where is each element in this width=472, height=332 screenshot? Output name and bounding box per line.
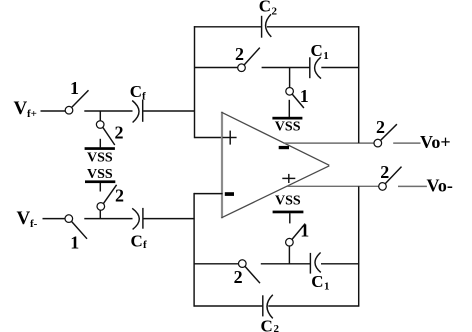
- top feedback wire right of C2: [267, 26, 359, 28]
- svg-text:C: C: [261, 316, 273, 332]
- op-amp -output mark: [279, 146, 289, 149]
- wire to VSS bar: [99, 139, 101, 148]
- capacitor Cf top: [132, 100, 143, 123]
- label Cf bottom: [131, 231, 148, 251]
- wire to VSS bar: [288, 100, 290, 117]
- svg-text:C: C: [259, 0, 271, 16]
- wire branch down to switch S4: [289, 68, 291, 88]
- svg-text:VSS: VSS: [87, 151, 113, 166]
- switch S10 bottom cm reset (phase 1): [286, 224, 306, 246]
- capacitor C1 bottom: [310, 253, 320, 274]
- wire C1 to output node: [321, 263, 359, 265]
- svg-text:V: V: [14, 98, 28, 119]
- capacitor C1 top: [310, 57, 321, 78]
- top feedback wire left of C2: [194, 26, 262, 28]
- wire Vf- to switch S7: [43, 218, 66, 220]
- capacitor C2 bottom: [263, 295, 273, 319]
- svg-text:VSS: VSS: [275, 119, 301, 134]
- wire C1 to output node: [321, 67, 359, 69]
- bottom feedback wire right of C2: [268, 305, 359, 307]
- ground VSS top-left bar: [85, 147, 115, 150]
- svg-text:1: 1: [300, 86, 309, 106]
- svg-text:V: V: [17, 208, 31, 229]
- svg-text:VSS: VSS: [275, 194, 301, 209]
- svg-text:1: 1: [70, 78, 79, 98]
- wire node X+ to op-amp +input: [195, 137, 223, 139]
- op-amp +input mark: [223, 131, 237, 145]
- svg-text:2: 2: [272, 6, 278, 18]
- node Vf+ label: [14, 98, 37, 120]
- svg-text:2: 2: [376, 117, 385, 137]
- capacitor C2 top: [262, 14, 272, 37]
- label C2 top: [259, 0, 278, 18]
- svg-text:1: 1: [300, 221, 309, 241]
- wire Vf+ to switch S1: [41, 110, 66, 112]
- svg-text:2: 2: [274, 323, 280, 332]
- svg-text:2: 2: [380, 162, 389, 182]
- wire Cf to summing node X-: [144, 218, 195, 220]
- node X- vertical wire: [193, 193, 195, 307]
- node Vo+ vertical feedback wire: [358, 26, 360, 143]
- wire switch S7 to Cf: [84, 218, 132, 220]
- op-amp +output mark: [282, 174, 295, 183]
- svg-text:2: 2: [115, 123, 124, 143]
- switch S7 bottom input (phase 1): [65, 215, 87, 239]
- svg-text:2: 2: [115, 185, 124, 205]
- svg-text:1: 1: [323, 50, 329, 62]
- svg-text:C: C: [130, 82, 142, 101]
- wire op-amp -output to switch: [284, 142, 375, 144]
- ground VSS top-middle bar: [272, 117, 302, 120]
- switch S5 output (phase 2): [374, 124, 397, 147]
- switch S4 top cm reset (phase 1): [286, 88, 304, 109]
- wire switch S1 to Cf: [84, 110, 132, 112]
- wire branch up to switch S10: [288, 246, 290, 264]
- svg-text:Vo+: Vo+: [420, 132, 451, 152]
- svg-text:1: 1: [324, 281, 330, 293]
- svg-text:f-: f-: [30, 218, 38, 230]
- wire to VSS bar: [99, 183, 101, 192]
- label Cf top: [130, 82, 146, 103]
- bottom inner wire from node X- to switch: [194, 263, 239, 265]
- wire to VSS bar: [289, 213, 291, 223]
- wire Cf to summing node X+: [143, 110, 195, 112]
- svg-text:2: 2: [234, 267, 243, 287]
- label C1 bottom: [311, 272, 329, 293]
- svg-text:C: C: [311, 272, 323, 291]
- svg-text:Vo-: Vo-: [427, 176, 453, 196]
- switch S6 output (phase 2): [379, 167, 402, 191]
- wire branch up to switch S8: [99, 210, 101, 219]
- ground VSS bottom-left bar: [85, 180, 115, 183]
- svg-text:C: C: [131, 231, 143, 250]
- svg-text:C: C: [311, 41, 323, 60]
- svg-text:1: 1: [70, 232, 79, 252]
- label C2 bottom: [261, 316, 280, 332]
- wire switch to Vo+: [393, 142, 420, 144]
- wire switch to C1: [261, 263, 311, 265]
- node Vf- label: [17, 208, 38, 230]
- wire switch to C1: [262, 67, 310, 69]
- switch S8 bottom reset (phase 2): [97, 185, 117, 210]
- switch S9 bottom feedback (phase 2): [239, 260, 261, 283]
- switch S1 top input (phase 1): [65, 90, 88, 114]
- wire node X- to op-amp -input: [194, 193, 222, 195]
- svg-text:f+: f+: [27, 108, 37, 120]
- switch S3 top feedback (phase 2): [238, 48, 260, 72]
- op-amp U1 fully differential: [221, 112, 329, 219]
- switch S2 top reset (phase 2): [96, 121, 114, 145]
- svg-text:2: 2: [235, 44, 244, 64]
- node Vo- vertical feedback wire: [358, 186, 360, 306]
- op-amp -input mark: [225, 192, 234, 196]
- node X+ vertical wire: [194, 26, 196, 138]
- wire switch to Vo-: [398, 185, 427, 187]
- bottom feedback wire left of C2: [194, 305, 263, 307]
- ground VSS bottom-middle bar: [273, 211, 304, 214]
- wire branch down to switch S2: [99, 111, 101, 121]
- svg-text:f: f: [143, 239, 147, 251]
- capacitor Cf bottom: [132, 208, 143, 230]
- svg-text:VSS: VSS: [87, 167, 113, 182]
- wire op-amp +output to switch: [287, 185, 379, 187]
- top inner wire from node X+ to switch: [195, 67, 239, 69]
- label C1 top: [311, 41, 329, 62]
- svg-text:f: f: [142, 91, 146, 103]
